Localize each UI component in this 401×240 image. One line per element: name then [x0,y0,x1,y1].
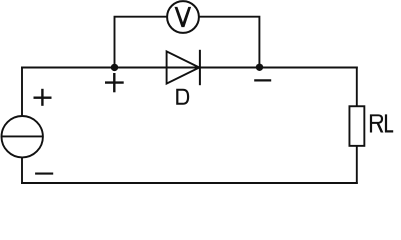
source polarity minus [35,173,53,175]
diode D cathode bar [199,50,201,85]
diode D triangle [167,51,200,83]
voltmeter U1 circle [167,1,199,33]
resistor label R of RL [370,114,384,132]
wire: left vertical lower [21,159,23,184]
source polarity plus [34,89,52,106]
source circle [2,116,43,157]
junction dot left [111,64,118,71]
wire: voltmeter branch left [115,17,167,68]
resistor RL box [349,106,364,146]
resistor label L of RL [385,114,393,132]
wire: bottom [22,182,357,184]
source diameter line [2,135,43,137]
wire: voltmeter branch right [200,17,260,68]
junction dot right [256,64,263,71]
wire: right vertical upper [356,68,358,106]
node minus label (cathode side) [254,79,271,81]
wire: right vertical lower [356,147,358,183]
diode label D [176,89,189,105]
node plus label (anode side) [105,73,124,92]
voltmeter label V [175,7,192,27]
wire: left vertical upper [21,68,23,116]
wire: main top [22,67,357,69]
